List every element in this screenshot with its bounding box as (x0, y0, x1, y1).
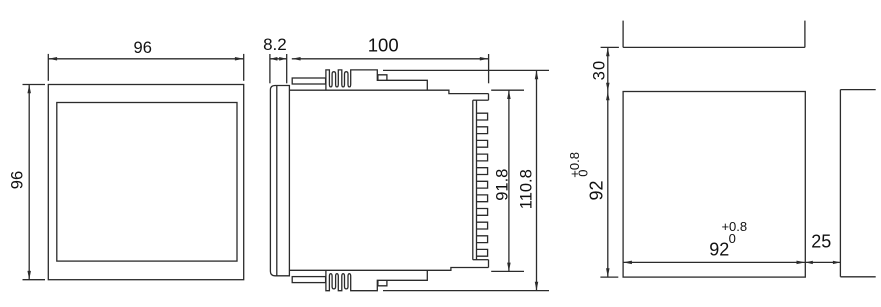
svg-text:110.8: 110.8 (517, 169, 535, 209)
svg-text:96: 96 (134, 39, 152, 57)
svg-text:8.2: 8.2 (263, 35, 287, 54)
svg-text:+0.8: +0.8 (567, 152, 582, 178)
svg-text:+0.8: +0.8 (721, 219, 747, 234)
svg-text:92: 92 (709, 240, 729, 260)
svg-text:30: 30 (591, 60, 609, 81)
svg-text:91.8: 91.8 (493, 169, 511, 201)
svg-text:25: 25 (811, 232, 831, 252)
svg-text:100: 100 (368, 35, 399, 56)
svg-text:96: 96 (9, 171, 27, 189)
svg-text:92: 92 (587, 180, 607, 200)
